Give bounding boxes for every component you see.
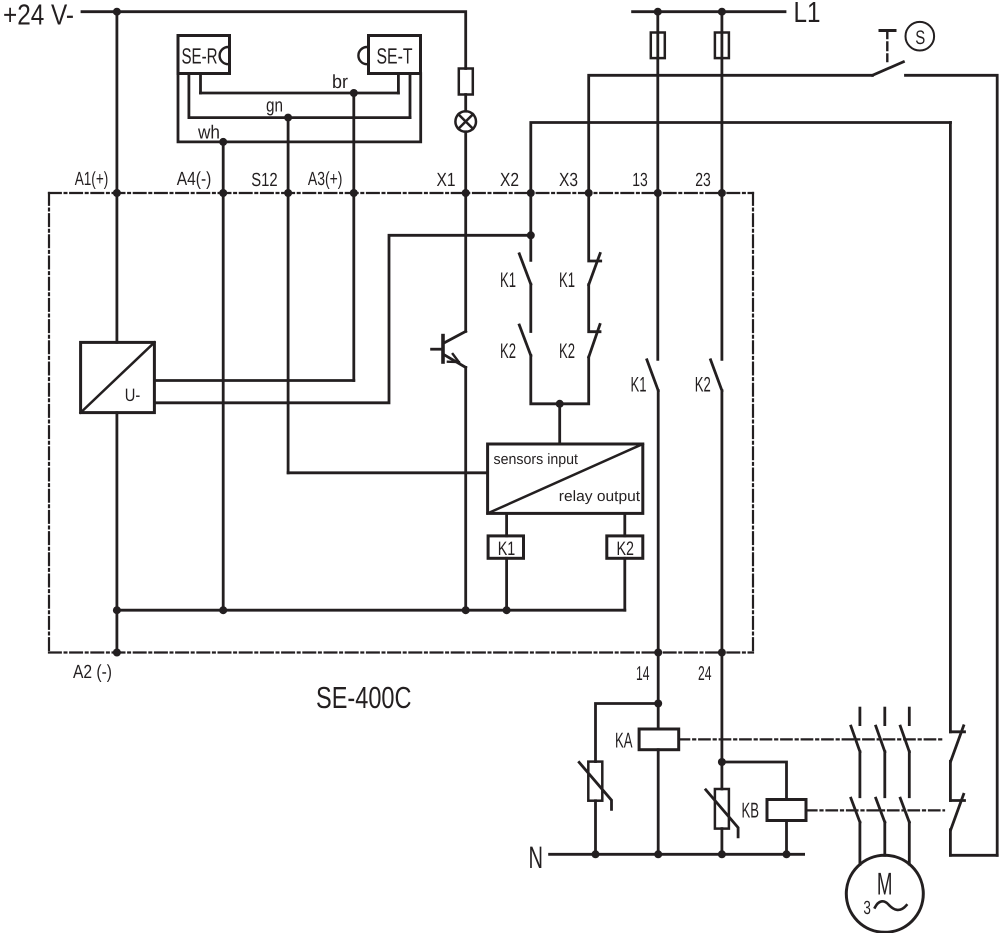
node 13 on module border <box>654 189 662 197</box>
node bus A1 <box>113 606 121 614</box>
contact KA NC aux in feedback loop <box>950 730 964 733</box>
svg-text:23: 23 <box>695 170 711 191</box>
node X1 on module border <box>462 189 470 197</box>
svg-text:K2: K2 <box>559 340 575 363</box>
svg-text:wh: wh <box>197 123 220 144</box>
wire X2 riser to feedback loop <box>531 123 951 194</box>
wire X3 riser to switch S <box>589 75 873 193</box>
relay coil K2 <box>607 536 643 558</box>
wire line 13 lower <box>657 391 660 653</box>
node 24 on module border <box>718 649 726 657</box>
wire switch S to right riser <box>906 75 998 855</box>
wire phase links between KA and KB contacts <box>860 752 909 797</box>
svg-text:+24 V-: +24 V- <box>3 0 74 32</box>
svg-text:A1(+): A1(+) <box>75 169 109 190</box>
wire gn rail <box>189 116 410 119</box>
svg-text:A3(+): A3(+) <box>308 169 343 190</box>
contact K2 NO on X2 branch <box>529 284 532 331</box>
lamp H1 <box>455 111 476 132</box>
wire SE-T lead gn <box>409 74 412 118</box>
sensor SE-T box <box>369 36 421 74</box>
node S12 on module border <box>284 189 292 197</box>
svg-text:14: 14 <box>636 663 650 685</box>
wire phase tails to motor <box>860 822 909 864</box>
relay coil K1 <box>488 536 523 558</box>
svg-text:M: M <box>877 865 893 901</box>
wire X1 vertical lower <box>464 367 467 610</box>
wire br rail <box>201 92 399 95</box>
wire U- upper output to A3 <box>154 379 353 382</box>
svg-text:S12: S12 <box>251 170 277 191</box>
svg-text:K1: K1 <box>500 269 516 292</box>
svg-text:SE-R: SE-R <box>182 44 218 69</box>
svg-text:X1: X1 <box>437 170 456 191</box>
svg-text:KB: KB <box>742 799 760 823</box>
node X2 tap <box>527 231 535 239</box>
wire A3(+) vertical <box>352 93 355 381</box>
varistor RU1 <box>579 762 611 810</box>
fuse F2 <box>715 33 729 59</box>
contact KB NC aux in feedback loop <box>950 799 964 802</box>
wire line 24 to varistor RU2 <box>721 653 724 790</box>
wire KA to N <box>657 750 660 855</box>
wire branch to coil KB <box>722 762 787 800</box>
wire KB to N <box>785 821 788 855</box>
module boundary SE-400C dashed <box>49 193 753 653</box>
contactor KB main contact phase 3 <box>900 798 909 822</box>
contactor coil KB <box>767 800 806 821</box>
contactor KB main contact phase 1 <box>851 798 860 822</box>
sensor SE-R box <box>178 36 230 74</box>
node X3 on module border <box>585 189 593 197</box>
node N varistor RU1 <box>592 850 600 858</box>
node N KA <box>654 850 662 858</box>
label S circle <box>906 22 935 51</box>
wire S12 vertical <box>287 118 290 473</box>
wire resistor to lamp <box>464 95 467 112</box>
wire line 23 upper <box>721 12 724 193</box>
switch S actuator T-bar <box>880 29 895 32</box>
wire K1 coil return <box>505 558 508 610</box>
wire X2 branch lower <box>531 355 560 403</box>
svg-text:A4(-): A4(-) <box>177 169 212 190</box>
svg-text:sensors input: sensors input <box>494 451 579 468</box>
wire feedback bottom link <box>950 854 997 857</box>
wire SE-T lead br <box>397 74 400 94</box>
wire K2 coil return <box>623 558 626 610</box>
contactor KA main contact phase 3 <box>900 708 909 752</box>
svg-text:br: br <box>332 72 349 93</box>
node A2 on module border <box>113 649 121 657</box>
node A3 on module border <box>350 189 358 197</box>
node A1 on module border <box>113 189 121 197</box>
node bus X1 <box>462 606 470 614</box>
svg-text:K1: K1 <box>559 269 575 292</box>
svg-text:X2: X2 <box>500 170 519 191</box>
wire U- lower output <box>154 235 530 402</box>
wire SE-R lead gn <box>187 74 190 118</box>
contactor KA main contact phase 1 <box>851 708 860 752</box>
wire SE-R lead br <box>199 74 202 94</box>
switch S dashed actuator stem <box>886 31 888 62</box>
wire X3 branch lower <box>560 357 589 404</box>
svg-text:A2 (-): A2 (-) <box>73 662 112 683</box>
wire feedback riser middle <box>949 761 952 800</box>
node A4 on module border <box>219 189 227 197</box>
wire sensor cable enclosure <box>178 74 421 142</box>
wire line 23 lower <box>721 391 724 653</box>
wire N bus <box>550 853 804 856</box>
node wh tap <box>219 138 227 146</box>
wire A4(-) vertical <box>222 142 225 610</box>
contact K2 NO in line 23 <box>721 193 724 359</box>
svg-text:24: 24 <box>698 663 712 685</box>
svg-text:N: N <box>529 840 544 875</box>
svg-text:K2: K2 <box>500 340 516 363</box>
pin K1 coil feed <box>505 513 508 536</box>
power supply U- box <box>81 342 155 412</box>
dashed KA actuation link <box>679 738 944 740</box>
wire branch to varistor RU1 <box>596 704 659 762</box>
svg-text:K2: K2 <box>617 538 635 560</box>
node bus K1 <box>503 606 511 614</box>
wire feedback riser lower <box>949 830 952 856</box>
switch S blade <box>873 62 904 76</box>
dashed KB actuation link <box>806 809 944 811</box>
logic block sensors input / relay output <box>488 444 643 513</box>
fuse F1 <box>651 33 665 59</box>
node N KB <box>783 850 791 858</box>
node L1 fuse1 <box>654 8 662 16</box>
svg-text:SE-400C: SE-400C <box>316 681 412 715</box>
node X2 on module border <box>527 189 535 197</box>
node 14 on module border <box>654 649 662 657</box>
node junction on +24V bus at A1 <box>113 8 121 16</box>
lens of SE-T <box>358 47 367 64</box>
wire +24V supply bus <box>82 12 466 69</box>
svg-text:13: 13 <box>632 170 648 191</box>
wire varistor RU2 to N <box>721 829 724 855</box>
contact K2 NC on X3 branch <box>589 285 600 332</box>
svg-text:SE-T: SE-T <box>377 44 413 69</box>
node bus A4 <box>219 606 227 614</box>
svg-text:U-: U- <box>125 385 141 405</box>
svg-text:gn: gn <box>266 96 283 117</box>
node L1 fuse2 <box>718 8 726 16</box>
wire X1 vertical upper <box>464 132 467 332</box>
svg-text:KA: KA <box>615 729 633 753</box>
svg-text:K2: K2 <box>695 374 711 397</box>
transistor Q1 <box>432 331 466 367</box>
wire A1(+) vertical <box>116 12 119 611</box>
svg-text:S: S <box>915 27 925 49</box>
varistor RU2 <box>706 789 738 837</box>
wire line 13 upper <box>656 12 659 193</box>
node 23 on module border <box>718 189 726 197</box>
node varistor branch 14 <box>654 700 662 708</box>
wire internal 0V bus <box>117 609 625 612</box>
wire feedback riser upper <box>949 123 952 732</box>
contact K1 NO in line 13 <box>656 193 659 359</box>
resistor R1 <box>459 69 473 95</box>
contactor coil KA <box>639 729 679 750</box>
wire line 14 to KA <box>657 653 660 730</box>
wire varistor RU1 to N <box>594 801 597 855</box>
contactor KB main contact phase 2 <box>876 798 885 822</box>
pin K2 coil feed <box>623 513 626 536</box>
contact K1 NO on X2 branch <box>529 193 532 260</box>
node gn tap <box>284 114 292 122</box>
svg-text:K1: K1 <box>498 538 516 560</box>
svg-text:X3: X3 <box>559 170 578 191</box>
motor M1 <box>846 855 923 932</box>
svg-text:L1: L1 <box>794 0 821 29</box>
node sensors-input feed <box>556 400 564 408</box>
contactor KA main contact phase 2 <box>876 708 885 752</box>
node br tap <box>350 89 358 97</box>
node KB branch 24 <box>718 758 726 766</box>
svg-text:K1: K1 <box>631 374 647 397</box>
contact K1 NC on X3 branch <box>589 193 601 261</box>
wire into logic block <box>558 404 561 444</box>
node N varistor RU2 <box>718 850 726 858</box>
svg-text:3: 3 <box>863 898 871 919</box>
wire A2 stub <box>116 610 119 652</box>
lens of SE-R <box>220 47 229 64</box>
wire S12 to sensors input <box>288 471 488 474</box>
svg-text:relay output: relay output <box>559 488 641 505</box>
wire L1 bus <box>633 10 785 13</box>
